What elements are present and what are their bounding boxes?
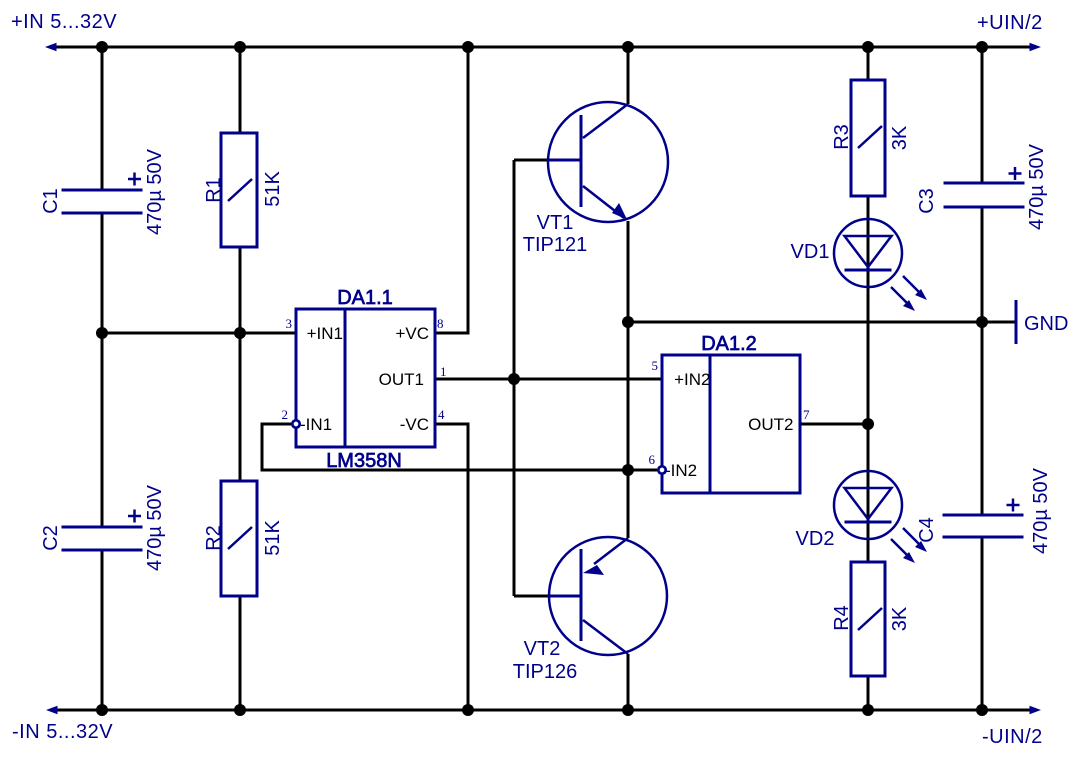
- svg-text:5: 5: [652, 358, 659, 373]
- junction OUT2 x=868: [862, 418, 874, 430]
- svg-text:51K: 51K: [262, 171, 284, 207]
- wire right column x=982: [981, 47, 984, 710]
- LED VD1: [791, 219, 927, 311]
- junction bottom rail x=468: [462, 704, 474, 716]
- wire bottom rail: [50, 709, 1031, 712]
- svg-text:VT2: VT2: [524, 638, 561, 660]
- wire OUT2 y=424: [800, 423, 868, 426]
- svg-text:8: 8: [437, 316, 444, 331]
- resistor R4: [831, 562, 911, 676]
- svg-text:3K: 3K: [889, 606, 911, 631]
- junction bottom rail x=868: [862, 704, 874, 716]
- resistor R3: [831, 80, 911, 196]
- svg-text:R1: R1: [203, 177, 225, 203]
- wire GND rail y=322: [628, 321, 1015, 324]
- junction top rail x=468: [462, 41, 474, 53]
- junction top rail x=628: [622, 41, 634, 53]
- wire LED chain x=868: [867, 196, 870, 562]
- junction top rail x=982: [976, 41, 988, 53]
- svg-text:C3: C3: [916, 188, 938, 214]
- svg-text:DA1.2: DA1.2: [701, 333, 757, 355]
- svg-text:470µ 50V: 470µ 50V: [144, 148, 166, 235]
- wire VT2 base stub: [514, 595, 552, 598]
- svg-text:+UIN/2: +UIN/2: [977, 12, 1043, 34]
- svg-text:51K: 51K: [262, 520, 284, 556]
- svg-text:C4: C4: [916, 517, 938, 543]
- ground GND: [1016, 300, 1068, 344]
- svg-text:LM358N: LM358N: [326, 450, 402, 472]
- svg-text:DA1.1: DA1.1: [337, 287, 393, 309]
- svg-text:3K: 3K: [889, 125, 911, 150]
- wire VT1 collector to top rail: [627, 47, 630, 104]
- wire R4 bottom: [867, 676, 870, 710]
- svg-text:-IN1: -IN1: [300, 415, 332, 434]
- svg-text:470µ 50V: 470µ 50V: [1030, 467, 1052, 554]
- op-amp DA1.1: [282, 287, 447, 472]
- svg-text:+IN1: +IN1: [307, 324, 343, 343]
- svg-text:-IN2: -IN2: [665, 461, 697, 480]
- svg-text:+VC: +VC: [395, 324, 429, 343]
- junction OUT1 base: [508, 373, 520, 385]
- wire left column x=102: [101, 47, 104, 710]
- svg-text:6: 6: [649, 452, 656, 467]
- svg-text:R2: R2: [203, 525, 225, 551]
- svg-text:-IN 5...32V: -IN 5...32V: [12, 721, 113, 743]
- arrow bottom rail right: [1030, 706, 1042, 715]
- svg-text:TIP121: TIP121: [523, 234, 587, 256]
- inversion bubble pin 6: [658, 466, 665, 473]
- op-amp DA1.2: [649, 333, 811, 493]
- wire base column x=514: [513, 160, 516, 596]
- wire emitter node x=628: [627, 221, 630, 538]
- capacitor C4: [916, 467, 1052, 554]
- svg-text:-VC: -VC: [400, 415, 429, 434]
- svg-text:4: 4: [438, 407, 445, 422]
- junction +IN1 x=240: [234, 327, 246, 339]
- transistor VT1: [523, 102, 668, 256]
- svg-text:+IN2: +IN2: [674, 370, 710, 389]
- junction bottom rail x=982: [976, 704, 988, 716]
- wire VT2 collector to bottom rail: [627, 654, 630, 710]
- resistor R2: [203, 481, 284, 596]
- inversion bubble pin 2: [292, 420, 299, 427]
- junction bottom rail x=240: [234, 704, 246, 716]
- svg-text:GND: GND: [1024, 313, 1068, 335]
- wire divider column x=240: [239, 47, 242, 710]
- svg-text:1: 1: [440, 364, 447, 379]
- svg-text:VD2: VD2: [796, 528, 835, 550]
- wire R3 top: [867, 47, 870, 80]
- svg-text:C2: C2: [40, 525, 62, 551]
- wire top rail: [50, 46, 1031, 49]
- wire VT1 base stub: [514, 159, 552, 162]
- junction GND rail x=628: [622, 316, 634, 328]
- svg-text:VD1: VD1: [791, 241, 830, 263]
- svg-text:TIP126: TIP126: [513, 661, 577, 683]
- svg-text:OUT2: OUT2: [748, 415, 793, 434]
- resistor R1: [203, 133, 284, 247]
- svg-text:470µ 50V: 470µ 50V: [1026, 143, 1048, 230]
- junction feedback x=628: [622, 464, 634, 476]
- svg-text:R3: R3: [831, 124, 853, 150]
- svg-text:3: 3: [286, 316, 293, 331]
- wire IN1 feedback to IN2: [262, 424, 657, 470]
- capacitor C3: [916, 143, 1048, 230]
- arrow top rail left: [45, 43, 57, 52]
- svg-text:2: 2: [282, 407, 289, 422]
- junction top rail x=240: [234, 41, 246, 53]
- junction top rail x=102: [96, 41, 108, 53]
- LED VD2: [796, 471, 927, 563]
- transistor VT2: [513, 537, 667, 683]
- junction top rail x=868: [862, 41, 874, 53]
- wire OUT1 to +IN2 y=379: [435, 378, 662, 381]
- svg-text:7: 7: [803, 407, 810, 422]
- svg-text:C1: C1: [40, 188, 62, 214]
- capacitor C1: [40, 148, 166, 235]
- svg-text:+IN 5...32V: +IN 5...32V: [11, 11, 117, 33]
- svg-text:OUT1: OUT1: [379, 370, 424, 389]
- arrow top rail right: [1030, 43, 1042, 52]
- svg-text:470µ 50V: 470µ 50V: [144, 484, 166, 571]
- junction +IN1 x=102: [96, 327, 108, 339]
- wire +VC to top rail: [435, 47, 468, 333]
- junction GND rail x=982: [976, 316, 988, 328]
- svg-text:-UIN/2: -UIN/2: [982, 726, 1043, 748]
- wire +IN1 y=333: [102, 332, 296, 335]
- wire -VC to bottom rail: [435, 424, 468, 710]
- svg-text:R4: R4: [831, 605, 853, 631]
- junction bottom rail x=628: [622, 704, 634, 716]
- arrow bottom rail left: [46, 706, 58, 715]
- junction bottom rail x=102: [96, 704, 108, 716]
- capacitor C2: [40, 484, 166, 571]
- svg-text:VT1: VT1: [537, 212, 574, 234]
